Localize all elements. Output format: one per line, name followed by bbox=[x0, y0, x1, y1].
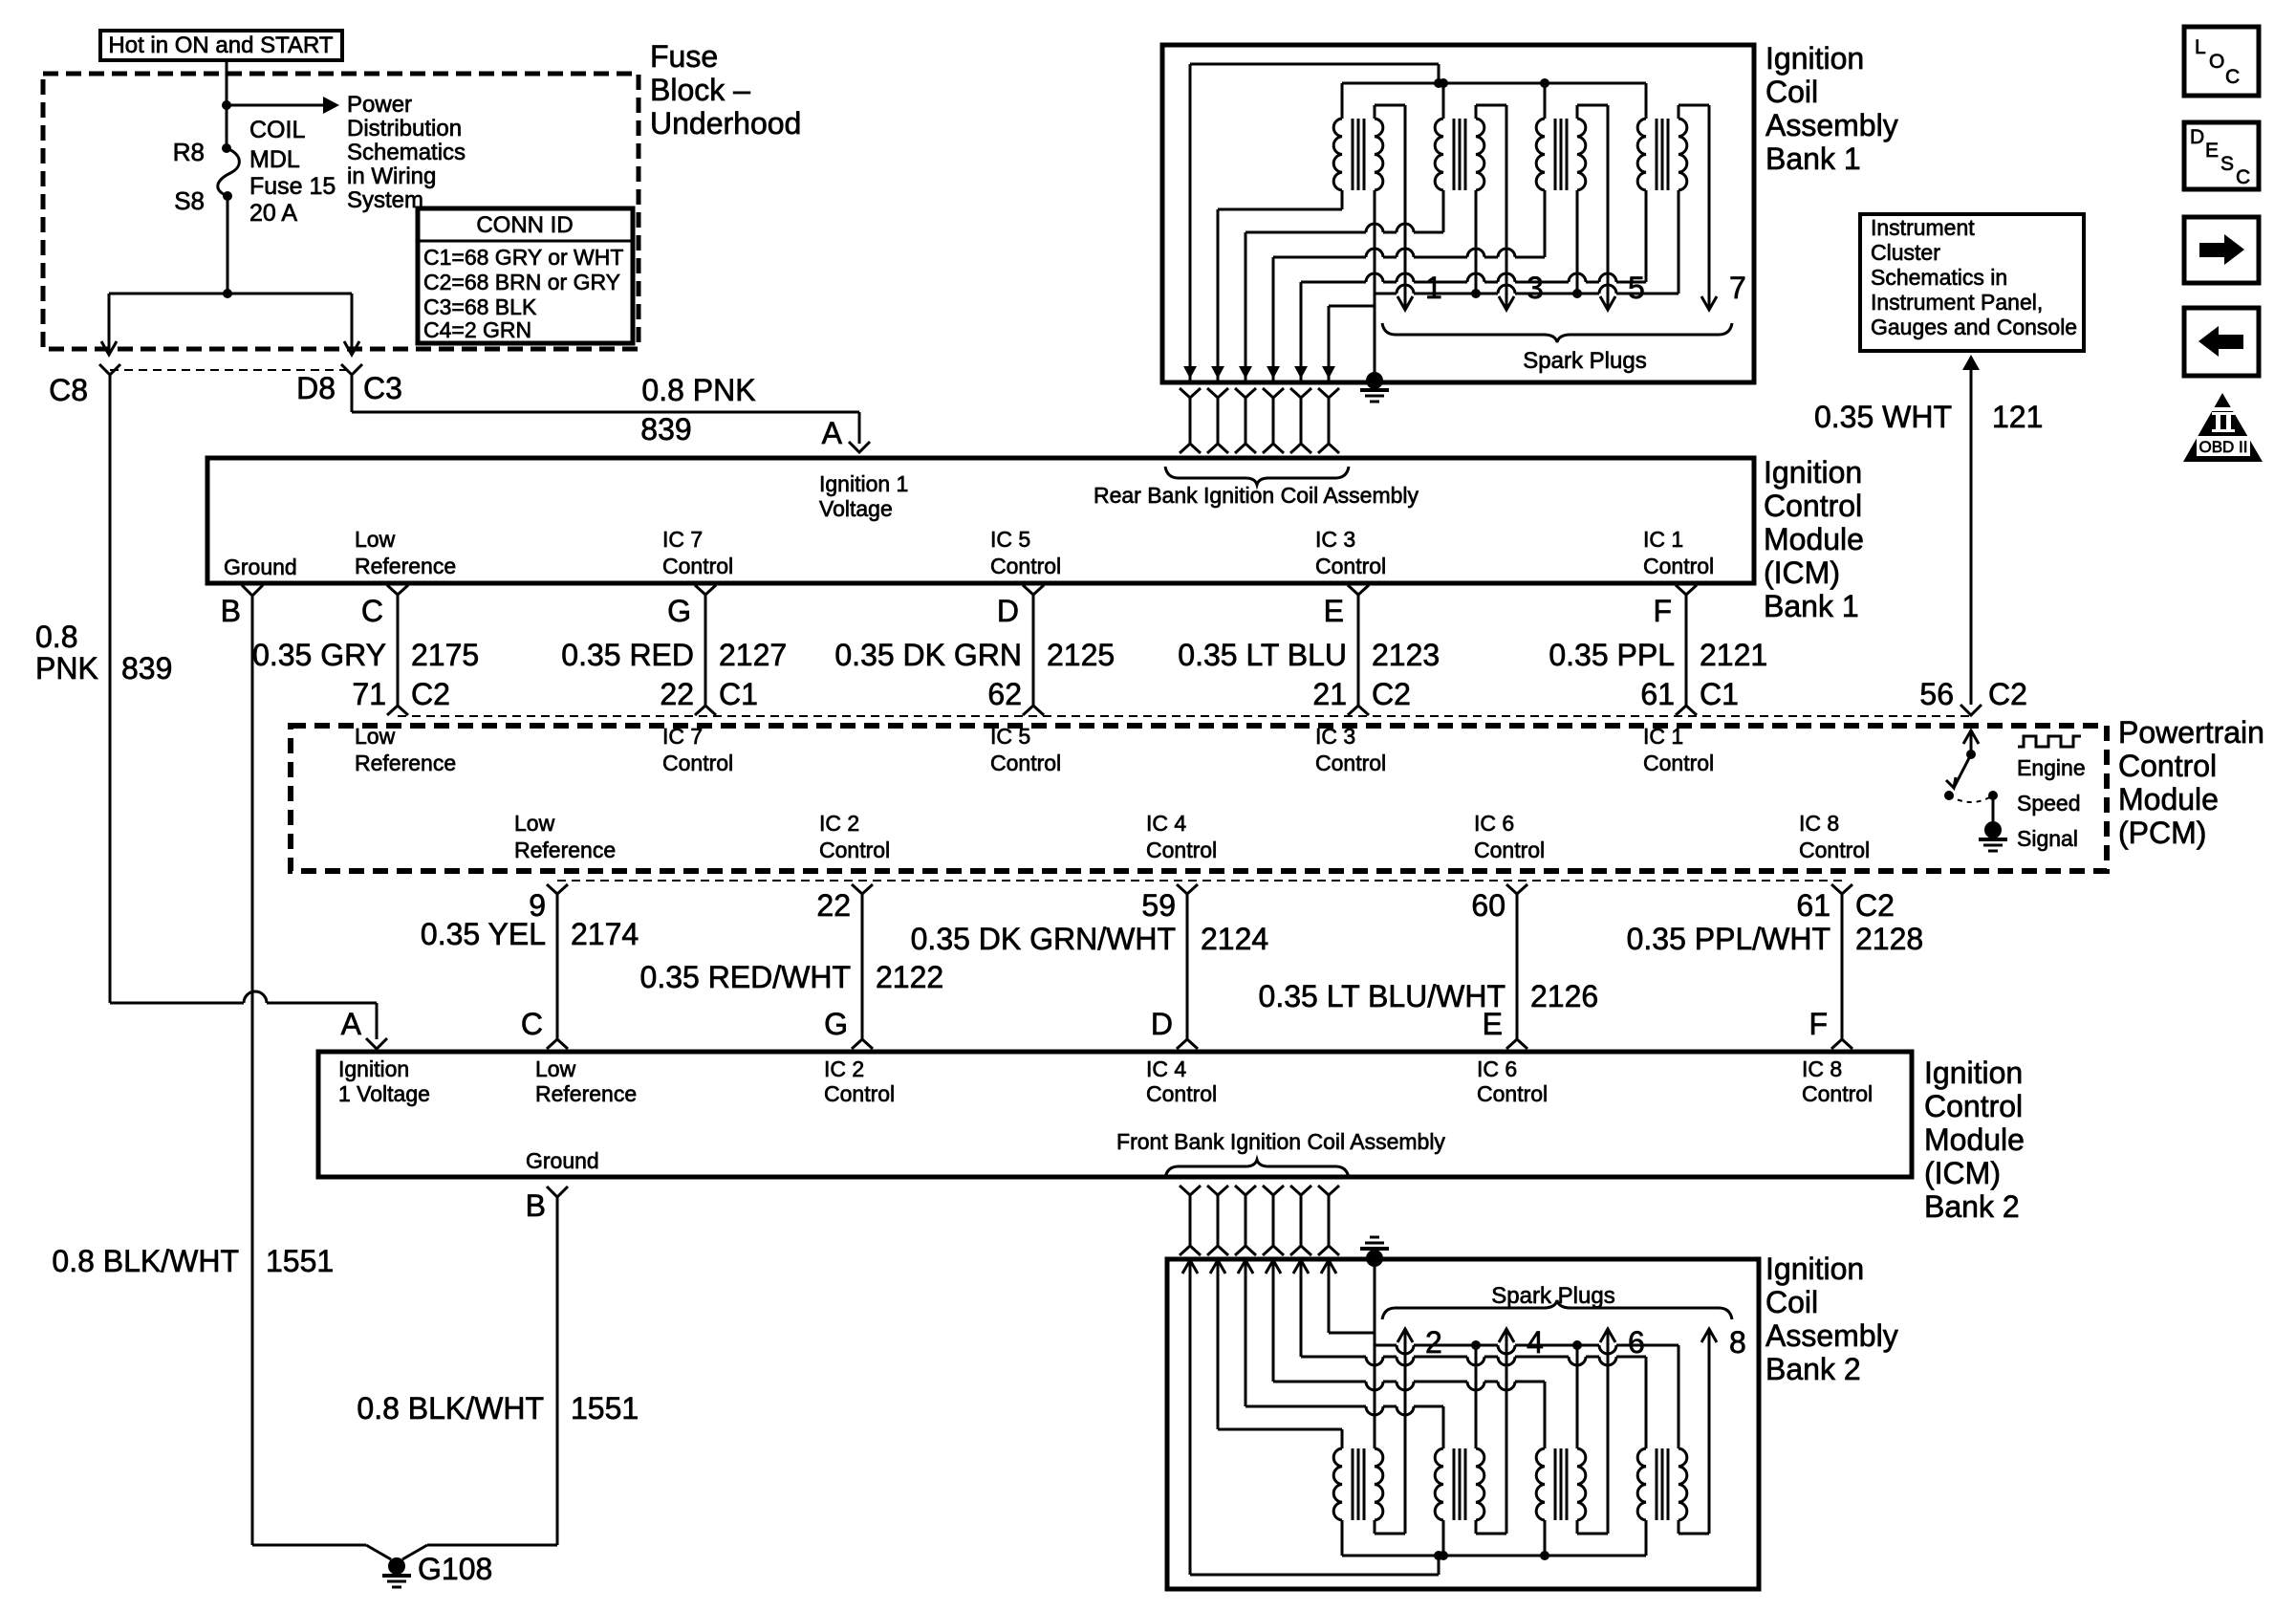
engine speed signal switch bbox=[1944, 730, 2007, 851]
wire label 0.35 DK GRN/WHT 2124 bbox=[911, 922, 1269, 956]
ignition coil transformer 4 bank 2 bbox=[1637, 1329, 1717, 1556]
svg-text:Engine: Engine bbox=[2017, 755, 2086, 780]
spark plug 6 bbox=[1628, 1325, 1645, 1360]
connector line ICM1/PCM (dashed) bbox=[398, 715, 1971, 717]
svg-text:7: 7 bbox=[1729, 271, 1746, 305]
ICM1 pin label: Ground bbox=[224, 555, 297, 579]
svg-text:A: A bbox=[822, 416, 843, 450]
pin A (ICM1) bbox=[822, 416, 843, 450]
label 0.8 BLK/WHT (lower) bbox=[357, 1391, 544, 1426]
label 0.35 WHT bbox=[1814, 400, 1952, 434]
svg-text:Control: Control bbox=[1146, 1081, 1217, 1106]
svg-text:Speed: Speed bbox=[2017, 791, 2081, 816]
wire coil feed 3 bank 1 bbox=[1239, 224, 1443, 381]
svg-text:Fuse: Fuse bbox=[650, 39, 718, 74]
svg-text:IC 5: IC 5 bbox=[990, 527, 1030, 552]
svg-text:Gauges and Console: Gauges and Console bbox=[1871, 315, 2077, 339]
ignition coil transformer 3 bank 1 bbox=[1536, 83, 1615, 310]
svg-text:Control: Control bbox=[1474, 838, 1545, 862]
svg-text:D8: D8 bbox=[296, 371, 336, 405]
svg-text:Module: Module bbox=[1924, 1122, 2025, 1157]
svg-text:Power: Power bbox=[347, 92, 412, 118]
wire 0.8 PNK 839 from C3 to ICM1 pin A bbox=[352, 375, 870, 452]
svg-text:Ignition: Ignition bbox=[1765, 1252, 1864, 1286]
svg-text:IC 4: IC 4 bbox=[1146, 811, 1186, 836]
pin number 9 bbox=[529, 888, 546, 923]
pin number 61 bbox=[1796, 888, 1895, 923]
CONN ID table bbox=[418, 208, 633, 343]
ICM2 pin label: IC 6 Control bbox=[1477, 1056, 1548, 1106]
PCM pin 61 bbox=[1640, 677, 1739, 711]
spark plug 7 bbox=[1729, 271, 1746, 305]
wire label 0.35 DK GRN 2125 bbox=[834, 638, 1115, 672]
svg-text:C2: C2 bbox=[411, 677, 450, 711]
svg-text:Voltage: Voltage bbox=[819, 496, 893, 521]
ignition coil transformer 4 bank 1 bbox=[1637, 83, 1717, 310]
svg-text:Fuse 15: Fuse 15 bbox=[249, 173, 336, 200]
svg-text:Module: Module bbox=[2118, 782, 2219, 816]
Ignition Control Module ICM Bank 2 box bbox=[318, 1052, 1912, 1177]
ICM2 pin label: Ground bbox=[526, 1148, 599, 1173]
fuse F15 COIL MDL 20A bbox=[218, 105, 240, 201]
wire coil feed 6 bank 2 bbox=[1321, 1258, 1375, 1333]
svg-text:in Wiring: in Wiring bbox=[347, 163, 436, 189]
svg-text:IC 4: IC 4 bbox=[1146, 1056, 1186, 1081]
PCM pin 62 bbox=[987, 677, 1022, 711]
connector rear bank wire bbox=[1263, 388, 1284, 453]
svg-text:C2: C2 bbox=[1372, 677, 1411, 711]
svg-text:C1: C1 bbox=[719, 677, 758, 711]
svg-text:56: 56 bbox=[1919, 677, 1954, 711]
svg-text:1: 1 bbox=[1425, 271, 1442, 305]
label: Engine Speed Signal bbox=[2017, 755, 2086, 851]
svg-text:IC 5: IC 5 bbox=[990, 724, 1030, 749]
wire label 0.35 YEL 2174 bbox=[421, 917, 639, 951]
svg-text:B: B bbox=[221, 594, 241, 628]
svg-text:C3=68 BLK: C3=68 BLK bbox=[423, 294, 537, 319]
svg-text:Control: Control bbox=[1643, 751, 1714, 775]
PCM pin 22 bbox=[660, 677, 758, 711]
svg-text:C1: C1 bbox=[1700, 677, 1739, 711]
svg-text:Ignition: Ignition bbox=[1924, 1056, 2023, 1090]
svg-text:D: D bbox=[1151, 1007, 1173, 1041]
svg-text:CONN ID: CONN ID bbox=[476, 212, 573, 238]
wire coil feed 1 bank 1 bbox=[1183, 64, 1439, 381]
svg-text:5: 5 bbox=[1628, 271, 1645, 305]
svg-text:8: 8 bbox=[1729, 1325, 1746, 1360]
svg-text:S: S bbox=[2220, 153, 2234, 175]
ignition coil transformer 3 bank 2 bbox=[1536, 1329, 1615, 1556]
wire coil feed 6 bank 1 bbox=[1322, 306, 1375, 381]
svg-text:IC 8: IC 8 bbox=[1802, 1056, 1842, 1081]
note: Front Bank Ignition Coil Assembly bbox=[1116, 1129, 1445, 1154]
connector front bank wire bbox=[1207, 1186, 1228, 1255]
connector front bank wire bbox=[1290, 1186, 1311, 1255]
ignition coil transformer 2 bank 1 bbox=[1435, 83, 1514, 310]
svg-text:IC 7: IC 7 bbox=[662, 527, 703, 552]
icon arrow right bbox=[2184, 217, 2259, 283]
title: Ignition Coil Assembly Bank 2 bbox=[1765, 1252, 1898, 1386]
connector rear bank wire bbox=[1235, 388, 1256, 453]
svg-text:Cluster: Cluster bbox=[1871, 240, 1940, 265]
icon LOC bbox=[2184, 27, 2259, 96]
wire label 0.35 LT BLU 2123 bbox=[1178, 638, 1440, 672]
icon arrow left bbox=[2184, 308, 2259, 376]
wire label 0.35 RED/WHT 2122 bbox=[640, 960, 944, 994]
svg-text:62: 62 bbox=[987, 677, 1022, 711]
svg-text:839: 839 bbox=[640, 412, 691, 446]
label 839 (vertical run) bbox=[121, 651, 172, 686]
svg-text:Low: Low bbox=[514, 811, 555, 836]
svg-text:Control: Control bbox=[1764, 489, 1862, 523]
wire coil feed 1 bank 2 bbox=[1182, 1258, 1439, 1575]
ground symbol bank 2 bbox=[1360, 1237, 1389, 1267]
spark plug 2 bbox=[1425, 1325, 1442, 1360]
note: Rear Bank Ignition Coil Assembly bbox=[1094, 483, 1419, 508]
svg-text:0.8 PNK: 0.8 PNK bbox=[641, 373, 755, 407]
svg-text:2127: 2127 bbox=[719, 638, 787, 672]
wire label 0.35 PPL 2121 bbox=[1549, 638, 1767, 672]
spark plug 8 bbox=[1729, 1325, 1746, 1360]
connector C8 bbox=[49, 364, 120, 407]
svg-text:OBD II: OBD II bbox=[2199, 438, 2247, 456]
svg-text:F: F bbox=[1653, 594, 1672, 628]
svg-text:Bank 1: Bank 1 bbox=[1764, 589, 1859, 623]
svg-text:IC 2: IC 2 bbox=[824, 1056, 864, 1081]
svg-text:Reference: Reference bbox=[355, 554, 456, 578]
svg-text:59: 59 bbox=[1141, 888, 1176, 923]
PCM pin 56 C2 connector bbox=[1919, 677, 2027, 715]
svg-text:0.35 LT BLU: 0.35 LT BLU bbox=[1178, 638, 1347, 672]
svg-text:2174: 2174 bbox=[571, 917, 639, 951]
svg-text:2125: 2125 bbox=[1047, 638, 1115, 672]
svg-text:Instrument: Instrument bbox=[1871, 215, 1975, 240]
svg-text:O: O bbox=[2209, 51, 2224, 73]
svg-text:F: F bbox=[1809, 1007, 1828, 1041]
svg-text:3: 3 bbox=[1527, 271, 1544, 305]
connector front bank wire bbox=[1263, 1186, 1284, 1255]
svg-text:Schematics: Schematics bbox=[347, 140, 466, 165]
svg-text:Control: Control bbox=[2118, 749, 2217, 783]
label Spark Plugs bank 2 bbox=[1491, 1283, 1614, 1309]
svg-text:1551: 1551 bbox=[571, 1391, 639, 1426]
wire from fuse to C8/D8 split bbox=[109, 196, 352, 298]
ICM2 pin letter G bbox=[824, 1007, 848, 1041]
connector front bank wire bbox=[1318, 1186, 1339, 1255]
wire from Hot in ON into fuse block bbox=[226, 60, 228, 105]
label 121 bbox=[1992, 400, 2043, 434]
svg-text:2126: 2126 bbox=[1530, 979, 1598, 1013]
svg-text:IC 1: IC 1 bbox=[1643, 527, 1683, 552]
svg-text:E: E bbox=[2205, 140, 2219, 162]
svg-text:Control: Control bbox=[1146, 838, 1217, 862]
spark plugs brace bank 1 bbox=[1382, 323, 1732, 342]
label 839 bbox=[640, 412, 691, 446]
svg-text:2121: 2121 bbox=[1700, 638, 1767, 672]
icon OBD II triangle bbox=[2183, 393, 2263, 462]
svg-text:Low: Low bbox=[535, 1056, 576, 1081]
svg-text:(ICM): (ICM) bbox=[1924, 1156, 2001, 1190]
wire label 0.35 GRY 2175 bbox=[252, 638, 479, 672]
connector line C8/D8 (dashed) bbox=[110, 369, 351, 371]
PCM lower pin 9 to ICM2 pin C bbox=[547, 884, 568, 1049]
PCM pin label: IC 7 Control bbox=[662, 724, 733, 775]
svg-text:61: 61 bbox=[1796, 888, 1830, 923]
ICM2 pin letter D bbox=[1151, 1007, 1173, 1041]
ICM2 pin label: Low Reference bbox=[535, 1056, 637, 1106]
svg-text:Control: Control bbox=[1315, 554, 1386, 578]
note box: Instrument Cluster Schematics bbox=[1860, 214, 2084, 351]
icon DESC bbox=[2184, 122, 2259, 189]
svg-text:Ground: Ground bbox=[224, 555, 297, 579]
spark plug 5 bbox=[1628, 271, 1645, 305]
coil ground wire bank 1 bbox=[1374, 294, 1376, 381]
ICM1 pin label: IC 5 Control bbox=[990, 527, 1061, 578]
svg-text:0.35 DK GRN/WHT: 0.35 DK GRN/WHT bbox=[911, 922, 1176, 956]
connector line PCM/ICM2 (dashed) bbox=[557, 880, 1842, 882]
ICM2 pin letter E bbox=[1483, 1007, 1503, 1041]
ICM1 pin E connector bbox=[1324, 585, 1369, 715]
primary voltage bus bank 1 bbox=[1342, 78, 1646, 88]
svg-text:Distribution: Distribution bbox=[347, 116, 462, 142]
svg-text:22: 22 bbox=[660, 677, 694, 711]
wire label 0.35 RED 2127 bbox=[561, 638, 787, 672]
pin R8 bbox=[173, 138, 205, 166]
svg-text:C3: C3 bbox=[363, 371, 402, 405]
svg-text:Control: Control bbox=[662, 554, 733, 578]
ICM2 pin letter F bbox=[1809, 1007, 1828, 1041]
svg-text:Control: Control bbox=[819, 838, 890, 862]
svg-text:C1=68 GRY or WHT: C1=68 GRY or WHT bbox=[423, 245, 623, 270]
svg-text:C2: C2 bbox=[1855, 888, 1895, 923]
svg-text:Block –: Block – bbox=[650, 73, 750, 107]
connector rear bank wire bbox=[1290, 388, 1311, 453]
svg-text:(PCM): (PCM) bbox=[2118, 816, 2206, 850]
title: Ignition Control Module (ICM) Bank 1 bbox=[1764, 455, 1864, 623]
ICM2 pin label: IC 4 Control bbox=[1146, 1056, 1217, 1106]
svg-text:E: E bbox=[1324, 594, 1344, 628]
svg-text:21: 21 bbox=[1312, 677, 1347, 711]
ICM2 pin A letter bbox=[341, 1007, 362, 1041]
svg-text:Coil: Coil bbox=[1765, 1285, 1818, 1319]
svg-text:1 Voltage: 1 Voltage bbox=[338, 1081, 430, 1106]
ignition coil assembly bank 1 box bbox=[1162, 45, 1754, 382]
svg-text:C2=68 BRN or GRY: C2=68 BRN or GRY bbox=[423, 270, 620, 294]
fuse block underhood dashed box bbox=[43, 74, 639, 349]
svg-text:Schematics in: Schematics in bbox=[1871, 265, 2007, 290]
connector D8 / C3 bbox=[296, 364, 402, 405]
svg-text:IC 3: IC 3 bbox=[1315, 527, 1355, 552]
svg-text:MDL: MDL bbox=[249, 146, 300, 173]
svg-text:System: System bbox=[347, 187, 423, 213]
svg-text:0.35 YEL: 0.35 YEL bbox=[421, 917, 546, 951]
svg-text:Bank 1: Bank 1 bbox=[1765, 142, 1861, 176]
svg-text:Powertrain: Powertrain bbox=[2118, 715, 2264, 750]
wire coil feed 5 bank 2 bbox=[1293, 1258, 1646, 1365]
PCM pin label: IC 6 Control bbox=[1474, 811, 1545, 862]
PCM pin 21 bbox=[1312, 677, 1411, 711]
ICM1 pin label: Ignition 1 Voltage bbox=[819, 471, 908, 521]
svg-text:Ignition: Ignition bbox=[338, 1056, 409, 1081]
pin number 22 bbox=[816, 888, 851, 923]
svg-text:E: E bbox=[1483, 1007, 1503, 1041]
svg-text:Front Bank Ignition Coil Assem: Front Bank Ignition Coil Assembly bbox=[1116, 1129, 1445, 1154]
svg-text:0.35 DK GRN: 0.35 DK GRN bbox=[834, 638, 1022, 672]
svg-text:PNK: PNK bbox=[35, 651, 98, 686]
svg-text:Ground: Ground bbox=[526, 1148, 599, 1173]
svg-text:0.35 GRY: 0.35 GRY bbox=[252, 638, 386, 672]
pin number 60 bbox=[1471, 888, 1505, 923]
svg-text:71: 71 bbox=[352, 677, 386, 711]
PCM pin label: IC 4 Control bbox=[1146, 811, 1217, 862]
PCM lower pin 22 to ICM2 pin G bbox=[852, 884, 873, 1049]
title: Ignition Control Module (ICM) Bank 2 bbox=[1924, 1056, 2025, 1224]
PCM pin label: IC 2 Control bbox=[819, 811, 890, 862]
svg-text:Reference: Reference bbox=[355, 751, 456, 775]
connector rear bank wire bbox=[1180, 388, 1201, 453]
svg-text:R8: R8 bbox=[173, 138, 205, 166]
connector rear bank wire bbox=[1318, 388, 1339, 453]
svg-text:G108: G108 bbox=[418, 1552, 492, 1586]
PCM pin label: Low Reference (top) bbox=[355, 724, 456, 775]
spark plug 1 bbox=[1425, 271, 1442, 305]
ICM1 pin C connector bbox=[361, 585, 408, 715]
ICM2 pin label: Ignition 1 Voltage bbox=[338, 1056, 430, 1106]
ignition coil transformer 1 bank 1 bbox=[1333, 83, 1413, 310]
svg-text:Assembly: Assembly bbox=[1765, 108, 1898, 142]
svg-text:S8: S8 bbox=[174, 186, 205, 215]
PCM lower pin 61 to ICM2 pin F bbox=[1831, 884, 1852, 1049]
svg-text:2128: 2128 bbox=[1855, 922, 1923, 956]
ICM1 pin label: IC 1 Control bbox=[1643, 527, 1714, 578]
wire coil feed 2 bank 1 bbox=[1211, 209, 1342, 381]
title: Ignition Coil Assembly Bank 1 bbox=[1765, 41, 1898, 176]
label 1551 (lower) bbox=[571, 1391, 639, 1426]
PCM pin label: Low Reference (bottom) bbox=[514, 811, 616, 862]
svg-text:Bank 2: Bank 2 bbox=[1924, 1189, 2020, 1224]
svg-text:C2: C2 bbox=[1988, 677, 2027, 711]
svg-text:C4=2 GRN: C4=2 GRN bbox=[423, 317, 531, 342]
svg-text:Module: Module bbox=[1764, 522, 1864, 556]
label 0.8 / PNK bbox=[35, 620, 98, 686]
spark plug 4 bbox=[1527, 1325, 1544, 1360]
svg-text:IC 1: IC 1 bbox=[1643, 724, 1683, 749]
label Spark Plugs bank 1 bbox=[1523, 348, 1646, 374]
svg-text:IC 8: IC 8 bbox=[1799, 811, 1839, 836]
ICM1 pin label: Low Reference bbox=[355, 527, 456, 578]
label 0.8 PNK bbox=[641, 373, 755, 407]
svg-text:C8: C8 bbox=[49, 373, 88, 407]
svg-text:Control: Control bbox=[1924, 1089, 2023, 1123]
svg-text:22: 22 bbox=[816, 888, 851, 923]
svg-text:C: C bbox=[361, 594, 383, 628]
svg-text:4: 4 bbox=[1527, 1325, 1544, 1360]
PCM lower pin 59 to ICM2 pin D bbox=[1177, 884, 1198, 1049]
svg-text:Reference: Reference bbox=[514, 838, 616, 862]
svg-text:0.8 BLK/WHT: 0.8 BLK/WHT bbox=[52, 1244, 239, 1278]
svg-text:D: D bbox=[997, 594, 1019, 628]
svg-text:Control: Control bbox=[1799, 838, 1870, 862]
secondary bus bank 1 bbox=[1375, 285, 1679, 298]
title: Powertrain Control Module (PCM) bbox=[2118, 715, 2264, 850]
svg-text:Hot in ON and START: Hot in ON and START bbox=[108, 33, 334, 58]
svg-text:2: 2 bbox=[1425, 1325, 1442, 1360]
svg-text:0.35 RED/WHT: 0.35 RED/WHT bbox=[640, 960, 851, 994]
squarewave engine speed symbol bbox=[2018, 736, 2081, 747]
svg-text:G: G bbox=[667, 594, 691, 628]
pin S8 bbox=[174, 186, 205, 215]
svg-text:0.35 LT BLU/WHT: 0.35 LT BLU/WHT bbox=[1259, 979, 1505, 1013]
svg-text:C: C bbox=[2225, 66, 2240, 88]
spark plugs brace bank 2 bbox=[1382, 1300, 1732, 1319]
arrow to Power Distribution Schematics bbox=[227, 97, 339, 114]
wire label 0.35 PPL/WHT 2128 bbox=[1627, 922, 1924, 956]
note: Power Distribution Schematics in Wiring System bbox=[347, 92, 466, 213]
svg-text:IC 6: IC 6 bbox=[1477, 1056, 1517, 1081]
svg-text:Ignition: Ignition bbox=[1764, 455, 1862, 490]
svg-text:Control: Control bbox=[990, 554, 1061, 578]
svg-text:20 A: 20 A bbox=[249, 200, 297, 227]
PCM pin label: IC 5 Control bbox=[990, 724, 1061, 775]
svg-text:60: 60 bbox=[1471, 888, 1505, 923]
svg-text:2175: 2175 bbox=[411, 638, 479, 672]
PCM pin label: IC 3 Control bbox=[1315, 724, 1386, 775]
svg-text:IC 7: IC 7 bbox=[662, 724, 703, 749]
power label box: Hot in ON and START bbox=[100, 31, 342, 60]
svg-text:2122: 2122 bbox=[876, 960, 943, 994]
PCM pin label: IC 1 Control bbox=[1643, 724, 1714, 775]
wire 0.35 WHT 121 to instrument cluster bbox=[1962, 355, 1980, 705]
wire coil feed 4 bank 1 bbox=[1267, 249, 1545, 381]
PCM pin 71 bbox=[352, 677, 450, 711]
wire coil feed 5 bank 1 bbox=[1294, 273, 1646, 381]
svg-text:Control: Control bbox=[990, 751, 1061, 775]
svg-text:2123: 2123 bbox=[1372, 638, 1440, 672]
wire coil feed 2 bank 2 bbox=[1210, 1258, 1342, 1429]
svg-text:Control: Control bbox=[1643, 554, 1714, 578]
svg-text:0.35 RED: 0.35 RED bbox=[561, 638, 694, 672]
svg-text:C: C bbox=[521, 1007, 543, 1041]
svg-text:121: 121 bbox=[1992, 400, 2043, 434]
svg-text:0.35 PPL: 0.35 PPL bbox=[1549, 638, 1675, 672]
ICM1 pin label: IC 7 Control bbox=[662, 527, 733, 578]
svg-text:Low: Low bbox=[355, 527, 396, 552]
ICM2 pin letter C bbox=[521, 1007, 543, 1041]
ICM1 pin label: IC 3 Control bbox=[1315, 527, 1386, 578]
svg-text:Bank 2: Bank 2 bbox=[1765, 1352, 1861, 1386]
connector front bank wire bbox=[1235, 1186, 1256, 1255]
wire coil feed 3 bank 2 bbox=[1238, 1258, 1443, 1415]
coil ground wire bank 2 bbox=[1374, 1258, 1376, 1345]
svg-text:0.35 PPL/WHT: 0.35 PPL/WHT bbox=[1627, 922, 1830, 956]
wire label 0.35 LT BLU/WHT 2126 bbox=[1259, 979, 1599, 1013]
svg-text:Coil: Coil bbox=[1765, 75, 1818, 109]
ground symbol bank 1 bbox=[1360, 372, 1389, 402]
label 0.8 BLK/WHT bbox=[52, 1244, 239, 1278]
label: Fuse Block - Underhood bbox=[650, 39, 801, 141]
ICM1 pin G connector bbox=[667, 585, 716, 715]
svg-text:D: D bbox=[2190, 126, 2204, 148]
brace over rear-bank wires bbox=[1165, 467, 1349, 485]
node: junction at power distribution tap bbox=[222, 100, 231, 110]
svg-text:IC 3: IC 3 bbox=[1315, 724, 1355, 749]
svg-text:L: L bbox=[2195, 36, 2206, 58]
Powertrain Control Module PCM dashed box bbox=[291, 726, 2107, 871]
connector rear bank wire bbox=[1207, 388, 1228, 453]
svg-text:Spark Plugs: Spark Plugs bbox=[1523, 348, 1646, 374]
svg-text:6: 6 bbox=[1628, 1325, 1645, 1360]
svg-text:Instrument Panel,: Instrument Panel, bbox=[1871, 290, 2043, 315]
